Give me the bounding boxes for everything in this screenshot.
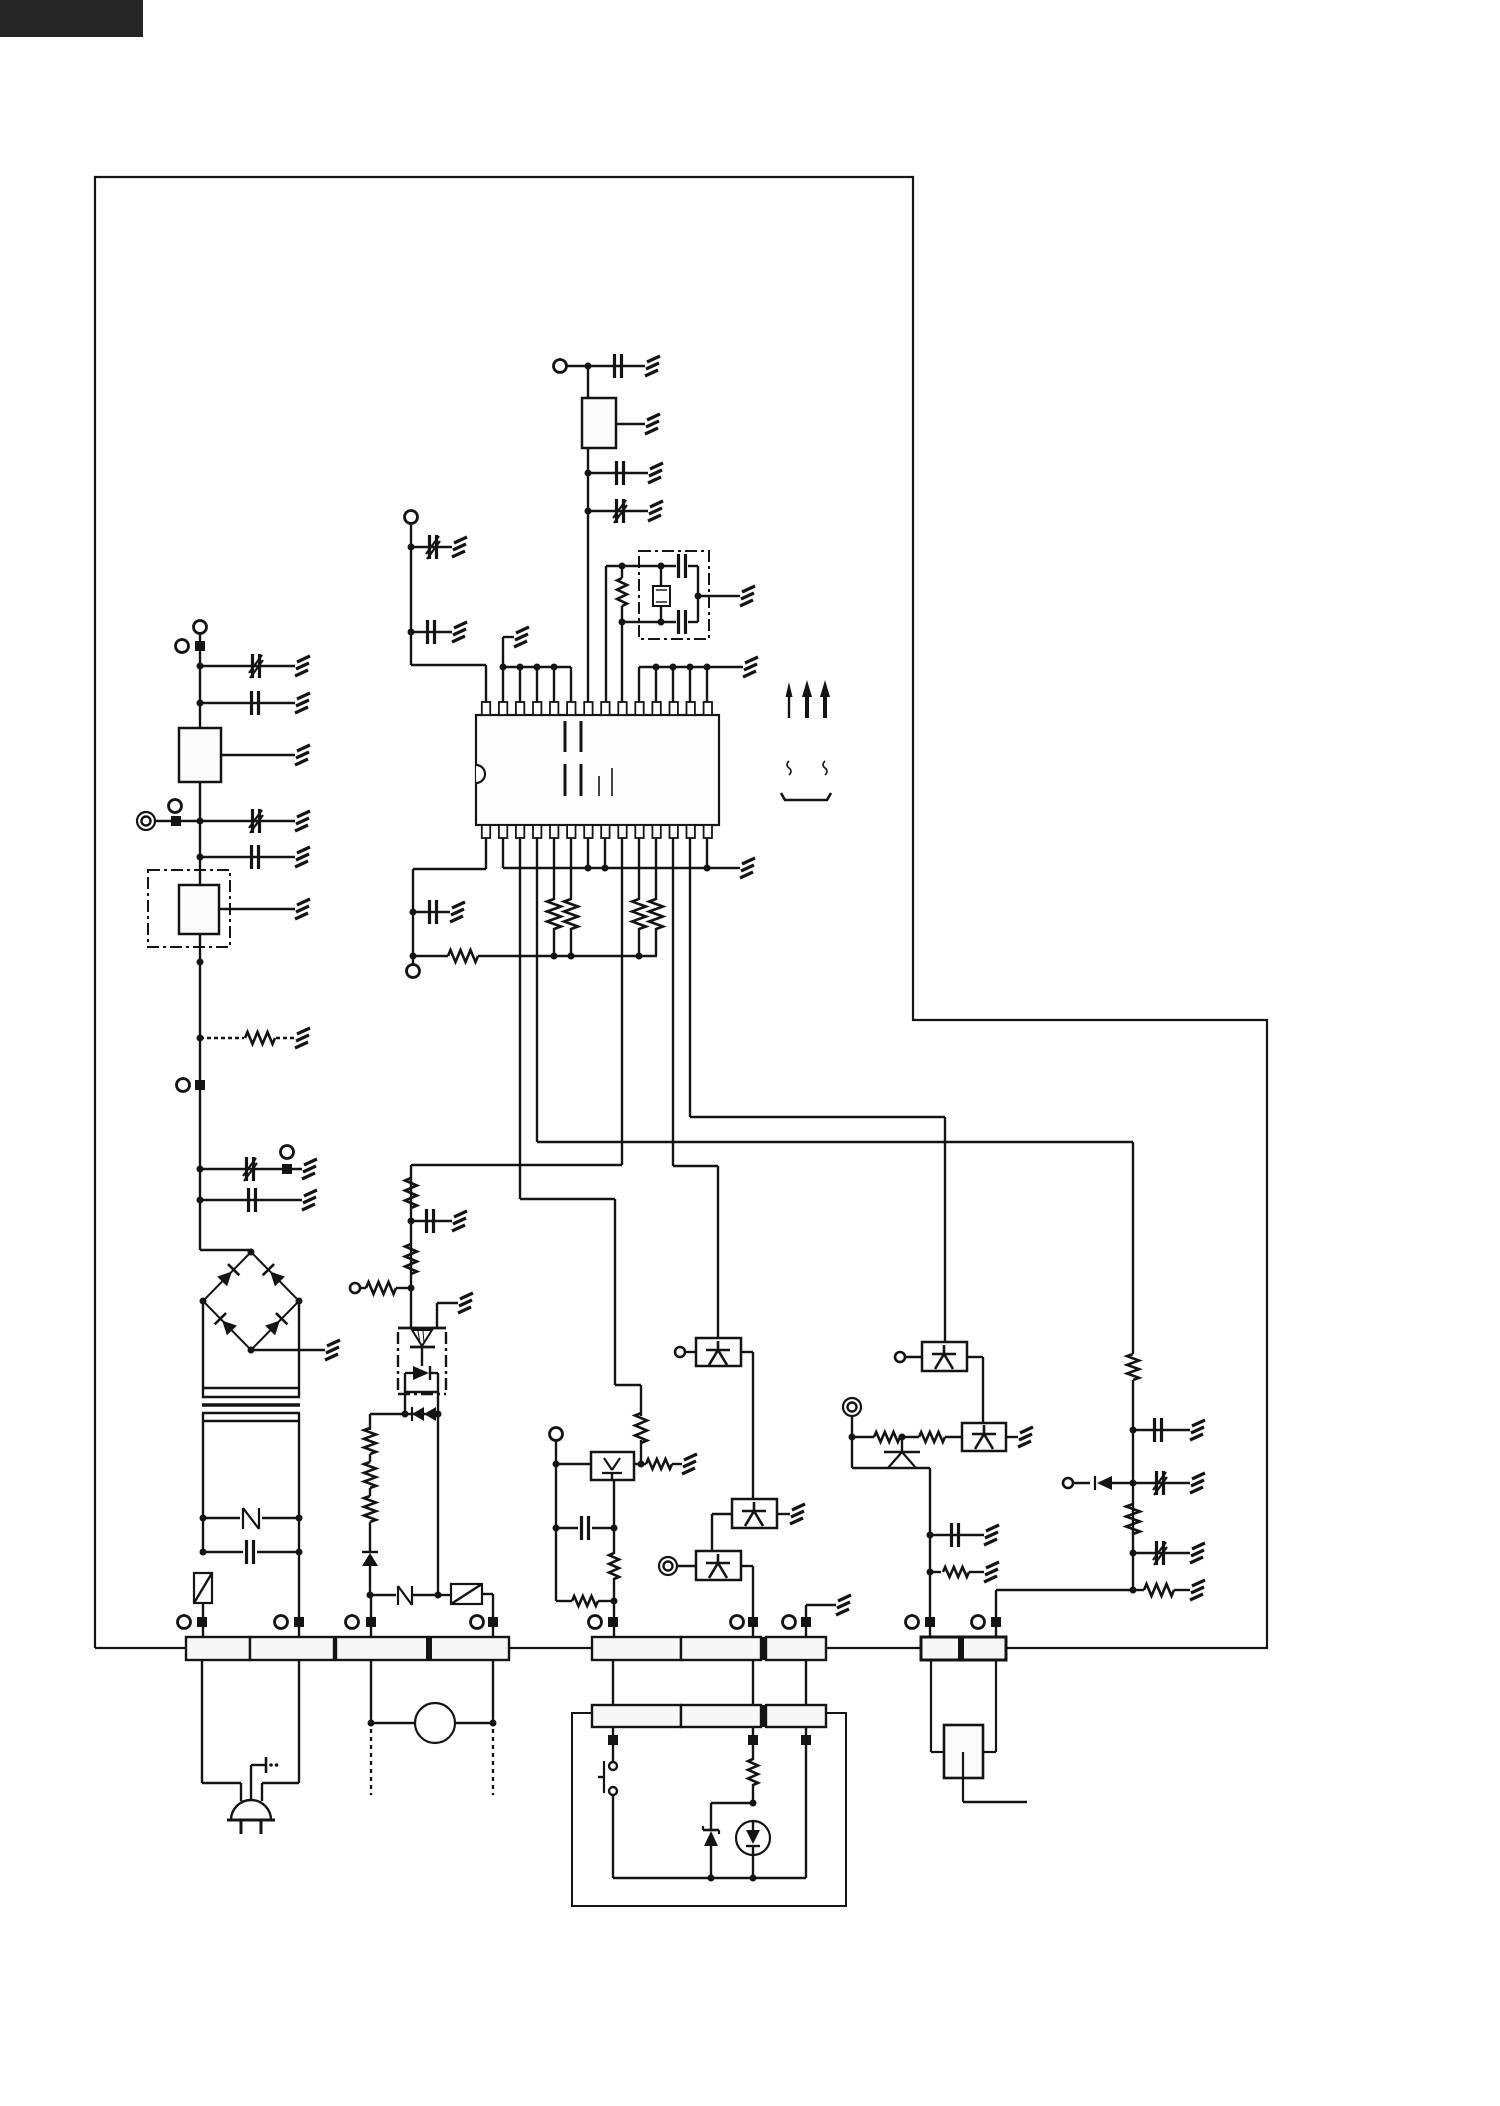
connector CN2 left half bbox=[336, 1637, 428, 1660]
wire bridge to ground bbox=[251, 1349, 325, 1351]
terminal CN1-2 bbox=[275, 1616, 305, 1629]
ground G22 bbox=[648, 463, 663, 483]
IC U1 (system control) bbox=[476, 715, 719, 825]
display arrow 2 bbox=[802, 680, 812, 718]
wire LD1 bottom leg bbox=[613, 1480, 615, 1554]
ground G8 bbox=[302, 1159, 317, 1179]
wire (dashed) R1 to ground bbox=[276, 1037, 295, 1039]
capacitor C17 bbox=[430, 900, 437, 924]
wire ground bus bbox=[503, 867, 740, 869]
wire F2 down bbox=[202, 1603, 204, 1637]
thermal switch F3 (N) bbox=[398, 1586, 412, 1605]
wire RY1 to CN2-2 bbox=[482, 1594, 493, 1637]
fuse F2 (box) bbox=[194, 1573, 212, 1603]
wire SW1 down bbox=[612, 1795, 614, 1878]
wire to C8 bbox=[411, 1220, 452, 1222]
node RM1 bbox=[750, 1800, 757, 1807]
wire to C18 bbox=[1133, 1429, 1190, 1431]
capacitor C11 bbox=[428, 620, 435, 644]
wire jack left bbox=[931, 1660, 944, 1752]
node M1a bbox=[368, 1720, 375, 1727]
ground G20 bbox=[645, 356, 660, 376]
terminal J5 with pad bbox=[177, 1079, 206, 1092]
wire J9 to PC1 bbox=[685, 1351, 696, 1353]
resistor R23 bbox=[943, 1567, 969, 1577]
wire plug right bbox=[262, 1660, 299, 1801]
node X1b bbox=[658, 563, 665, 570]
wire J15 to PC4 bbox=[905, 1356, 922, 1358]
ground G11 bbox=[452, 1211, 467, 1231]
ground G15 bbox=[836, 1595, 851, 1615]
diode block D4 bbox=[405, 1366, 438, 1414]
node D2n bbox=[602, 865, 609, 872]
wire CN3-3 ground jog bbox=[806, 1605, 836, 1637]
wire R4 to D3 bbox=[369, 1522, 371, 1552]
photocoupler PC5 bbox=[962, 1423, 1006, 1451]
wire node to zener bbox=[711, 1803, 753, 1830]
node C1c bbox=[551, 953, 558, 960]
motor M1 bbox=[415, 1703, 455, 1743]
wire left leg bbox=[555, 1464, 557, 1601]
ground G27 bbox=[1190, 1420, 1205, 1440]
wire to C5 bbox=[200, 1168, 302, 1170]
capacitor C14 bbox=[613, 499, 627, 523]
node C1a bbox=[410, 909, 417, 916]
wire pin14 stub bbox=[706, 838, 708, 868]
node M2b bbox=[435, 1592, 442, 1599]
resistor R19 bbox=[1126, 1504, 1140, 1534]
wire D3 to node bbox=[369, 1566, 371, 1595]
wire (dashed) to R1 bbox=[200, 1037, 244, 1039]
wire CN3-CN4 a bbox=[612, 1660, 614, 1705]
node L1h bbox=[197, 1197, 204, 1204]
terminal CN3-1 bbox=[589, 1616, 619, 1629]
capacitor C6 bbox=[249, 1188, 256, 1212]
wire CN2-1 up bbox=[370, 1595, 372, 1637]
capacitor C16 bbox=[679, 596, 699, 634]
capacitor C20 bbox=[1153, 1541, 1167, 1565]
wire to R14 bbox=[413, 955, 448, 957]
wire motor left bbox=[370, 1660, 372, 1723]
terminal J11 bbox=[405, 511, 418, 524]
wire J8 down bbox=[555, 1440, 557, 1464]
connector CN3 seg2 bbox=[681, 1637, 761, 1660]
wire pin1 to input branch bbox=[411, 665, 486, 702]
wire to resistor chain bbox=[369, 1414, 371, 1430]
wire R16 down bbox=[570, 928, 572, 956]
ground G23 bbox=[648, 501, 663, 521]
node C1b bbox=[410, 953, 417, 960]
bridge diode D1d bbox=[265, 1313, 287, 1335]
connector CN4 seg1 bbox=[592, 1705, 681, 1727]
wire secondary right down bbox=[298, 1552, 300, 1637]
wire secondary right bbox=[298, 1413, 300, 1552]
wire CN3-CN4 c bbox=[805, 1660, 807, 1705]
wire pin10 leg bbox=[638, 838, 640, 900]
node D3n bbox=[704, 865, 711, 872]
resistor R13 bbox=[617, 566, 627, 622]
wire secondary left bbox=[202, 1413, 204, 1552]
ground G30 bbox=[1190, 1580, 1205, 1600]
resistor R1 (optional) bbox=[245, 1032, 275, 1044]
wire PC3 to CN3-2 bbox=[741, 1566, 753, 1637]
resistor R24 bbox=[1127, 1354, 1139, 1380]
wire from IC pin13 bbox=[690, 838, 945, 1342]
connector CN3 seg3 bbox=[766, 1637, 826, 1660]
terminal J13 bbox=[407, 956, 420, 978]
wire J12 to node bbox=[566, 365, 588, 367]
bridge rectifier D1 (diamond) bbox=[200, 1249, 303, 1354]
node S1b bbox=[408, 1285, 415, 1292]
terminal J8 bbox=[550, 1428, 563, 1441]
capacitor C9 bbox=[582, 1516, 589, 1540]
wire FL1 to ground bbox=[221, 754, 295, 756]
capacitor C3 bbox=[249, 809, 263, 833]
wire right leg bbox=[805, 1727, 807, 1878]
wire to C10 bbox=[411, 546, 452, 548]
wire bridge left leg bbox=[202, 1301, 204, 1398]
chassis tab bbox=[266, 1757, 278, 1773]
wire SSR column bbox=[410, 1165, 412, 1328]
node X1d bbox=[658, 619, 665, 626]
wire to C19 bbox=[1133, 1482, 1190, 1484]
wire LD1 right bbox=[634, 1463, 646, 1465]
diode D3 (up) bbox=[362, 1552, 378, 1566]
wire jack right bbox=[983, 1660, 996, 1752]
capacitor C13 bbox=[617, 461, 624, 485]
wire bridge right leg bbox=[298, 1301, 300, 1398]
crystal X1 bbox=[653, 566, 670, 622]
resistor R15 bbox=[547, 899, 561, 929]
wire top column bbox=[587, 366, 589, 702]
wire to C11 bbox=[411, 631, 452, 633]
thyristor Q1 (in SSR) bbox=[398, 1328, 446, 1366]
node L1a bbox=[197, 663, 204, 670]
wire bus to ground riser bbox=[503, 637, 514, 667]
node L1g bbox=[197, 1166, 204, 1173]
wire R7 to node bbox=[396, 1287, 411, 1289]
ground G18 bbox=[452, 537, 467, 557]
ground G28 bbox=[1190, 1473, 1205, 1493]
node L1c bbox=[197, 818, 204, 825]
wire cap row bbox=[556, 1527, 614, 1529]
wire X1 to pin9 top bbox=[621, 622, 623, 702]
display brace bbox=[781, 793, 831, 800]
ground G6 bbox=[295, 899, 310, 919]
wire R17 down bbox=[638, 928, 640, 956]
AC plug P1 bbox=[227, 1800, 275, 1834]
node X1a bbox=[619, 563, 626, 570]
connector CN1 left half bbox=[186, 1637, 250, 1660]
wire to motor bbox=[371, 1722, 493, 1724]
ground G4 bbox=[295, 811, 310, 831]
bridge diode D1a bbox=[217, 1264, 239, 1286]
transformer T1 primary bbox=[202, 1388, 300, 1397]
wire pin6 leg bbox=[570, 838, 572, 900]
wire J16 leg bbox=[852, 1437, 930, 1637]
node P1b bbox=[899, 1434, 906, 1441]
diode D6 (left) bbox=[1095, 1476, 1133, 1490]
node T1b bbox=[296, 1515, 303, 1522]
capacitor C7 bbox=[247, 1540, 254, 1564]
wire pin8 stub bbox=[604, 838, 606, 868]
capacitor C5 bbox=[243, 1157, 257, 1181]
wire PC5 to ground bbox=[1006, 1436, 1018, 1438]
terminal J16 (coax) bbox=[843, 1398, 861, 1416]
relay RY1 (box) bbox=[451, 1584, 482, 1604]
wire pin5 leg bbox=[553, 838, 555, 900]
connector CN5 right bbox=[961, 1637, 1006, 1660]
display arrow 1 bbox=[786, 682, 793, 718]
wire pin7 stub bbox=[587, 838, 589, 868]
node C1d bbox=[568, 953, 575, 960]
ground G17 bbox=[743, 657, 758, 677]
resistor R8 bbox=[635, 1413, 647, 1443]
wire pin2 bottom bbox=[502, 838, 504, 868]
node B3 bbox=[585, 508, 592, 515]
resistor R7 bbox=[366, 1282, 396, 1294]
capacitor C10 bbox=[426, 535, 440, 559]
connector CN4 seg2 bbox=[681, 1705, 761, 1727]
resistor R22 bbox=[900, 1432, 962, 1442]
terminal J9 bbox=[675, 1347, 685, 1357]
wire triac output row bbox=[370, 1413, 438, 1415]
wire LED feed bbox=[615, 1199, 641, 1416]
wire R12 to node bbox=[752, 1784, 754, 1803]
wire plug left bbox=[202, 1660, 241, 1801]
filter FL1 bbox=[179, 728, 221, 782]
wire top bus right bbox=[639, 664, 743, 703]
node T1d bbox=[296, 1549, 303, 1556]
wire gate ground jog bbox=[437, 1303, 458, 1328]
wire R2-R3 bbox=[369, 1454, 371, 1462]
wire FL2 to ground bbox=[219, 908, 295, 910]
wire R8 to LED box bbox=[640, 1440, 642, 1464]
wire FL3 to ground bbox=[616, 423, 645, 425]
wire rail to bridge bbox=[200, 1250, 251, 1252]
triac Q2 bbox=[884, 1437, 920, 1468]
wire to R23 bbox=[930, 1571, 941, 1573]
LED LD2 bbox=[736, 1821, 770, 1856]
resistor R21 bbox=[852, 1432, 900, 1442]
node P1d bbox=[927, 1569, 934, 1576]
break mark a bbox=[787, 761, 791, 775]
capacitor C18 bbox=[1155, 1418, 1162, 1442]
capacitor C19 bbox=[1153, 1471, 1167, 1495]
node D1n bbox=[585, 865, 592, 872]
ground G25 bbox=[450, 902, 465, 922]
wire to C17 bbox=[413, 911, 450, 913]
resistor R14 bbox=[448, 950, 478, 962]
wire plug earth bbox=[251, 1765, 266, 1801]
capacitor C4 bbox=[252, 845, 259, 869]
switch SW1 bbox=[598, 1761, 617, 1795]
node L1d bbox=[197, 854, 204, 861]
node LD1c bbox=[553, 1525, 560, 1532]
node L1f bbox=[197, 1035, 204, 1042]
capacitor C1 (line filter) bbox=[249, 654, 263, 678]
ground G33 bbox=[984, 1562, 999, 1582]
node LD1a bbox=[638, 1461, 645, 1468]
headphone jack body bbox=[944, 1725, 983, 1778]
wire to switch bbox=[612, 1727, 614, 1762]
node RM2 bbox=[708, 1875, 715, 1882]
wire to R12 bbox=[752, 1727, 754, 1760]
terminal J6 with pad bbox=[281, 1146, 294, 1175]
IC U1 top pins bbox=[482, 702, 712, 715]
resistor R9 bbox=[646, 1459, 672, 1469]
wire to C12 bbox=[588, 365, 645, 367]
wire J11 down bbox=[410, 523, 412, 665]
node H1c bbox=[1130, 1550, 1137, 1557]
wire jack feed bbox=[996, 1590, 1133, 1637]
resistor R16 bbox=[564, 899, 578, 929]
resistor R6 bbox=[405, 1244, 417, 1274]
wire to R20 bbox=[1133, 1589, 1144, 1591]
node B1 bbox=[585, 363, 592, 370]
terminal CN2-2 bbox=[471, 1616, 499, 1629]
terminal CN5-2 bbox=[972, 1616, 1002, 1629]
node H1b bbox=[1130, 1480, 1137, 1487]
node LD1e bbox=[611, 1598, 618, 1605]
ground G10 bbox=[325, 1340, 340, 1360]
wire to C6 bbox=[200, 1199, 302, 1201]
wire from IC pin9 bbox=[411, 838, 622, 1165]
wire from IC pin12 bbox=[673, 838, 718, 1338]
node LD1b bbox=[553, 1461, 560, 1468]
wire to C4 bbox=[200, 856, 295, 858]
wire X1 to pin8 bbox=[605, 566, 607, 702]
resistor R18 bbox=[649, 899, 663, 929]
wire to C14 bbox=[588, 510, 648, 512]
wire remote bottom rail bbox=[613, 1877, 806, 1879]
wire node to RY1 bbox=[438, 1594, 451, 1596]
node RM3 bbox=[750, 1875, 757, 1882]
ground G1 bbox=[295, 656, 310, 676]
connector CN3 seg1 bbox=[592, 1637, 681, 1660]
ground G2 bbox=[295, 693, 310, 713]
resistor R3 bbox=[364, 1462, 376, 1488]
IC U1 index notch bbox=[476, 765, 485, 783]
divider CN3 bbox=[760, 1637, 767, 1660]
node S1a bbox=[408, 1218, 415, 1225]
display arrow 3 bbox=[820, 680, 830, 718]
filter FL3 bbox=[582, 398, 616, 448]
wire R14 bus bbox=[478, 955, 657, 957]
node H1a bbox=[1130, 1427, 1137, 1434]
wire PC2 to ground bbox=[777, 1513, 790, 1515]
IC U1 bottom pins bbox=[482, 825, 712, 838]
capacitor C21 bbox=[952, 1523, 959, 1547]
connector CN1 right half bbox=[250, 1637, 334, 1660]
wire to C20 bbox=[1133, 1552, 1190, 1554]
wire jack stem bbox=[963, 1752, 1027, 1802]
wire R9 to ground bbox=[672, 1463, 682, 1465]
terminal J1 (top of AC line) bbox=[194, 621, 207, 642]
wire D5 down bbox=[710, 1846, 712, 1878]
node C1e bbox=[636, 953, 643, 960]
ground G12 bbox=[458, 1293, 473, 1313]
capacitor C2 bbox=[252, 691, 259, 715]
terminal J15 bbox=[895, 1352, 905, 1362]
node Q1a bbox=[402, 1411, 409, 1418]
node T1a bbox=[200, 1515, 207, 1522]
ground G26 bbox=[740, 858, 755, 878]
diode D2 (double, pointing left) bbox=[412, 1407, 436, 1421]
ground G3 bbox=[295, 745, 310, 765]
wire pin1 bottom bbox=[413, 838, 486, 956]
ground G29 bbox=[1190, 1543, 1205, 1563]
wire pin11 leg bbox=[655, 838, 657, 900]
wire drive column bbox=[437, 1414, 439, 1595]
ground G31 bbox=[1018, 1427, 1033, 1447]
wire crystal top bbox=[606, 565, 676, 567]
node A2 bbox=[408, 629, 415, 636]
terminal CN3-3 bbox=[783, 1616, 812, 1629]
terminal CN3-2 bbox=[731, 1616, 759, 1629]
wire res row bbox=[556, 1600, 614, 1602]
pad CN4-1 bbox=[608, 1735, 618, 1745]
node Q1b bbox=[435, 1411, 442, 1418]
title block (solid bar, top-left) bbox=[0, 0, 143, 37]
wire to C13 bbox=[588, 472, 648, 474]
node A1 bbox=[408, 544, 415, 551]
ground G19 bbox=[452, 622, 467, 642]
divider CN2 bbox=[426, 1637, 432, 1660]
ground G32 bbox=[984, 1525, 999, 1545]
wire J7 to R7 bbox=[360, 1287, 366, 1289]
wire PC4 to PC5 bbox=[967, 1357, 983, 1423]
crystal shield (dash-dot) bbox=[639, 551, 709, 639]
ground G21 bbox=[645, 414, 660, 434]
wire to thermal switch bbox=[370, 1594, 396, 1596]
wire J16 down bbox=[851, 1416, 853, 1437]
terminal CN5-1 bbox=[906, 1616, 936, 1629]
wire PC1 to PC2 bbox=[741, 1352, 753, 1499]
wire J10 to PC3 bbox=[677, 1565, 696, 1567]
photocoupler PC2 bbox=[732, 1499, 777, 1528]
node L1e bbox=[197, 959, 204, 966]
wire (dashed) below left bbox=[370, 1729, 372, 1795]
wire from IC pin4 bbox=[537, 838, 1133, 1354]
resistor R5 bbox=[405, 1178, 417, 1208]
wire (dashed) below right bbox=[492, 1729, 494, 1795]
photocoupler PC1 bbox=[696, 1338, 741, 1366]
node LD1d bbox=[611, 1525, 618, 1532]
wire LD1 left bbox=[556, 1463, 591, 1465]
capacitor C8 bbox=[427, 1209, 434, 1233]
wire LD2 down bbox=[752, 1855, 754, 1878]
resistor R11 bbox=[572, 1596, 598, 1606]
ground G7 bbox=[295, 1028, 310, 1048]
LED box LD1 bbox=[591, 1452, 634, 1480]
capacitor C15 bbox=[679, 554, 699, 596]
wire R20 to ground bbox=[1174, 1589, 1190, 1591]
bridge diode D1b bbox=[263, 1264, 285, 1286]
resistor R10 bbox=[609, 1553, 619, 1579]
wire R15 down bbox=[553, 928, 555, 956]
wire crystal to ground bbox=[698, 595, 740, 597]
wire from IC pin3 bbox=[520, 838, 615, 1199]
wire J14 to D6 bbox=[1073, 1482, 1090, 1484]
resistor R2 bbox=[364, 1428, 376, 1454]
remote unit enclosure bbox=[572, 1713, 846, 1906]
wire motor right bbox=[492, 1660, 494, 1723]
ground G14 bbox=[790, 1504, 805, 1524]
node H1d bbox=[1130, 1587, 1137, 1594]
SSR1 outline (dash-dot) bbox=[398, 1332, 446, 1394]
filter FL2 bbox=[179, 885, 219, 934]
